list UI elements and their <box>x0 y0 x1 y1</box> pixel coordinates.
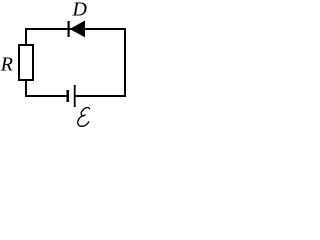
svg-text:R: R <box>0 54 13 76</box>
svg-text:D: D <box>72 0 88 21</box>
